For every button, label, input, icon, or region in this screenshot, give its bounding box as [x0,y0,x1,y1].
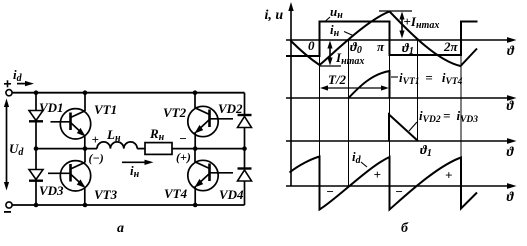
grid line at pi (x=390) [389,22,391,187]
wire: top rail [12,92,244,94]
wire: load mid wire left [36,148,97,150]
wire: right leg upper [244,93,246,115]
plot2 x-axis [286,95,517,101]
diode VD4 [238,169,252,206]
waveform i_н [291,12,478,67]
svg-text:VT4: VT4 [164,186,188,201]
plot3 x-axis [286,138,517,144]
svg-text:(−): (−) [89,151,104,165]
terminal minus (-) bottom left [4,211,11,213]
svg-text:+: + [92,132,99,147]
ref line at -Imax level [320,65,341,67]
svg-text:VT3: VT3 [94,187,118,202]
svg-text:+: + [374,167,381,182]
wire: VD3 upper [35,149,37,169]
ref line at +Imax level [379,10,412,12]
diode VD1 [29,111,43,149]
arrow i_н [122,160,154,165]
transistor VT3 [48,149,91,205]
wire: resistor to right leg [172,148,245,150]
svg-text:+: + [445,168,452,183]
wire: coil to resistor [137,148,145,150]
svg-text:i, u: i, u [265,8,284,23]
svg-text:T/2: T/2 [328,72,347,87]
svg-text:VD1: VD1 [39,100,64,115]
waveform i_VT1 ramp [349,71,390,98]
node: top input terminal [6,90,12,96]
node junction dot [34,90,39,95]
svg-text:б: б [401,221,409,236]
svg-text:ϑ: ϑ [507,144,515,159]
transistor VT2 [188,93,233,149]
svg-text:VT1: VT1 [94,102,117,117]
grid line at theta1 (x=417.5) [417,40,419,141]
node junction dot [34,203,39,208]
svg-text:ϑ: ϑ [507,98,515,113]
label i_d plot4 [352,149,367,167]
arrow I_н max (down) [327,41,332,66]
grid line at theta0 (x=348.5) [348,40,350,186]
plot4 x-axis [286,183,517,189]
resistor R_н [145,143,172,155]
svg-text:VD4: VD4 [219,187,244,202]
diode VD3 [29,170,43,206]
node junction dot [83,146,88,151]
transistor VT1 [51,93,91,149]
wire: left diode leg [35,93,37,111]
node junction dot [193,203,198,208]
node junction dot [83,90,88,95]
diode VD2 [238,115,252,149]
node junction dot [242,146,247,151]
svg-text:VD2: VD2 [218,101,243,116]
arrow i_d [17,81,34,86]
wire: right leg lower [244,149,246,169]
grid line at 0 (x=319.5) [319,22,321,187]
label i_VT1 = i_VT4 [391,70,463,87]
label u_н [325,4,343,22]
svg-text:VD3: VD3 [39,183,64,198]
grid line at 2pi (x=461) [460,22,462,186]
waveform u_н square wave [286,22,478,57]
wire: bottom rail [12,204,244,206]
svg-text:(+): (+) [176,150,191,164]
transistor VT4 [188,149,233,205]
plot1 x-axis [286,37,517,43]
svg-text:ϑ: ϑ [507,43,515,58]
terminal plus (+) top left [4,80,11,87]
svg-text:ϑ: ϑ [507,189,515,204]
svg-text:π: π [377,39,385,54]
waveform i_d [290,157,478,210]
svg-text:−: − [395,184,403,199]
node junction dot [34,146,39,151]
svg-text:−: − [326,184,334,199]
inductor L_н [97,142,137,149]
svg-text:а: а [117,221,124,236]
node junction dot [83,203,88,208]
node junction dot [193,146,198,151]
waveform i_VD2 spike [389,115,418,142]
y-axis i,u [288,2,293,186]
label i_VD2 = i_VD3 [409,108,478,131]
label i_н plot1 [330,22,353,39]
svg-text:VT2: VT2 [163,105,187,120]
arrow T/2 span [320,85,389,90]
node junction dot [193,90,198,95]
svg-text:2π: 2π [443,39,459,54]
node: bottom input terminal [6,202,12,208]
arrow +I_н max [399,12,404,39]
svg-text:0: 0 [308,38,315,53]
voltage arrow U_d [4,99,9,191]
svg-text:−: − [179,131,187,146]
